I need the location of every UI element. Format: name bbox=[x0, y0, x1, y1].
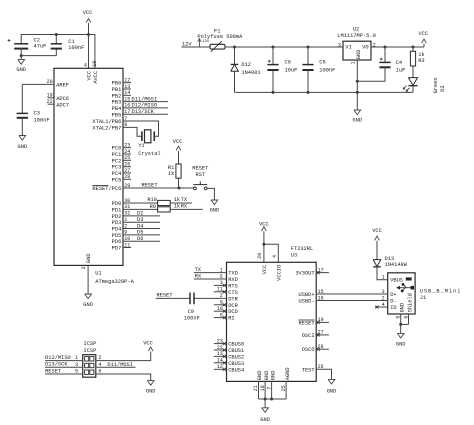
svg-text:1N4001: 1N4001 bbox=[241, 70, 260, 76]
svg-text:Green: Green bbox=[433, 77, 439, 93]
svg-text:5: 5 bbox=[75, 369, 78, 375]
svg-text:TX: TX bbox=[181, 197, 188, 203]
svg-text:ADC7: ADC7 bbox=[56, 102, 69, 108]
wire RX net bbox=[170, 208, 203, 210]
svg-text:PC5: PC5 bbox=[112, 177, 122, 183]
svg-text:2: 2 bbox=[98, 355, 101, 361]
svg-text:D12/MISO: D12/MISO bbox=[132, 103, 158, 109]
regulator U2 LM1117MP-5.0 bbox=[343, 41, 371, 60]
svg-text:USBD-: USBD- bbox=[299, 299, 315, 305]
svg-text:PB4: PB4 bbox=[112, 106, 122, 112]
svg-text:GND: GND bbox=[270, 371, 276, 381]
svg-text:USB_B_Mini: USB_B_Mini bbox=[420, 288, 462, 294]
svg-text:PD6: PD6 bbox=[112, 239, 122, 245]
svg-text:1: 1 bbox=[75, 355, 78, 361]
svg-text:VCC: VCC bbox=[262, 265, 268, 275]
ground under J1 bbox=[400, 324, 402, 333]
svg-text:CBUS3: CBUS3 bbox=[228, 361, 244, 367]
svg-text:ID: ID bbox=[390, 305, 396, 311]
svg-text:Shield: Shield bbox=[407, 293, 413, 312]
svg-text:CTS: CTS bbox=[228, 290, 238, 296]
ground under U2 bbox=[356, 107, 358, 110]
capacitor C2 47uF bbox=[14, 43, 28, 45]
svg-text:6: 6 bbox=[98, 369, 101, 375]
svg-text:GND: GND bbox=[396, 341, 406, 347]
svg-text:PB3: PB3 bbox=[112, 100, 122, 106]
svg-text:C5: C5 bbox=[319, 60, 325, 66]
svg-text:PB1: PB1 bbox=[112, 87, 122, 93]
svg-text:GND: GND bbox=[146, 389, 156, 395]
svg-text:PB0: PB0 bbox=[112, 81, 122, 87]
svg-text:D13/SCK: D13/SCK bbox=[132, 109, 155, 115]
svg-text:CBUS4: CBUS4 bbox=[228, 367, 244, 373]
svg-text:VCC: VCC bbox=[83, 10, 93, 16]
svg-text:GND: GND bbox=[352, 118, 362, 124]
wire ground return rail bbox=[235, 91, 414, 93]
svg-text:D13/SCK: D13/SCK bbox=[45, 362, 68, 368]
svg-text:PD0: PD0 bbox=[112, 201, 122, 207]
svg-text:TXD: TXD bbox=[228, 271, 238, 277]
svg-text:Y1: Y1 bbox=[138, 143, 144, 149]
node junction C6 bottom bbox=[272, 91, 275, 94]
svg-text:XTAL2/PB7: XTAL2/PB7 bbox=[92, 125, 121, 131]
node junction C6 top bbox=[272, 46, 275, 49]
node junction J1 gnd bbox=[399, 323, 402, 326]
svg-text:3: 3 bbox=[382, 289, 385, 295]
svg-text:VCC: VCC bbox=[87, 71, 93, 81]
svg-text:100nF: 100nF bbox=[34, 118, 50, 124]
svg-text:GND: GND bbox=[327, 388, 337, 394]
capacitor C5 100nF bbox=[307, 47, 309, 65]
svg-text:GND: GND bbox=[257, 371, 263, 381]
svg-text:U3: U3 bbox=[291, 253, 297, 259]
svg-text:RST: RST bbox=[195, 172, 205, 178]
svg-text:100nF: 100nF bbox=[184, 316, 200, 322]
svg-text:C3: C3 bbox=[34, 111, 40, 117]
svg-text:PD2: PD2 bbox=[112, 214, 122, 220]
resistor R9 1k (RX) bbox=[123, 208, 158, 210]
svg-text:GND: GND bbox=[210, 207, 220, 213]
svg-text:PD4: PD4 bbox=[112, 227, 122, 233]
node junction GND stem bbox=[264, 398, 267, 401]
node junction R1/reset bbox=[178, 187, 181, 190]
node junction C4 return bbox=[356, 80, 359, 83]
node junction C4 top bbox=[384, 46, 387, 49]
svg-text:PC3: PC3 bbox=[112, 165, 122, 171]
wire fuse to regulator bbox=[225, 46, 343, 48]
node junction pin7 gnd bbox=[270, 398, 273, 401]
ground at ICSP bbox=[150, 379, 152, 381]
wire TX net bbox=[170, 202, 192, 204]
svg-text:4: 4 bbox=[84, 63, 87, 69]
pin 4 ID bbox=[375, 306, 388, 308]
svg-text:18: 18 bbox=[92, 61, 98, 67]
wire J1 ground bus bbox=[401, 323, 409, 325]
node junction VCC/VCCIO bbox=[262, 243, 265, 246]
svg-text:FT232RL: FT232RL bbox=[291, 246, 313, 252]
svg-text:D3: D3 bbox=[137, 217, 143, 223]
resistor R10 1k (TX) bbox=[123, 202, 158, 204]
svg-text:RI: RI bbox=[228, 316, 234, 322]
svg-text:PC2: PC2 bbox=[112, 158, 122, 164]
svg-text:Crystal: Crystal bbox=[138, 151, 160, 157]
resistor R1 1k bbox=[176, 164, 181, 178]
svg-text:D12: D12 bbox=[241, 62, 251, 68]
svg-text:PB5: PB5 bbox=[112, 112, 122, 118]
svg-text:VCC: VCC bbox=[372, 228, 382, 234]
wire RESET net (pin29 to R1 and switch) bbox=[123, 187, 194, 189]
svg-text:ICSP: ICSP bbox=[84, 348, 97, 354]
svg-text:RESET: RESET bbox=[192, 165, 208, 171]
node junction C1 top bbox=[55, 33, 58, 36]
pin 1 ICSP (D12/MISO) bbox=[45, 360, 83, 362]
svg-text:GND: GND bbox=[260, 417, 270, 423]
wire C2 bottom to GND / C1 bottom bbox=[21, 49, 56, 56]
svg-text:LM1117MP-5.0: LM1117MP-5.0 bbox=[337, 33, 375, 39]
svg-text:4: 4 bbox=[382, 302, 385, 308]
capacitor C6 10uF bbox=[272, 47, 274, 65]
svg-text:ICSP: ICSP bbox=[84, 341, 97, 347]
svg-text:1: 1 bbox=[382, 274, 385, 280]
svg-text:1: 1 bbox=[350, 61, 356, 64]
svg-text:20: 20 bbox=[257, 253, 263, 259]
pin 19 ADC6 bbox=[48, 97, 54, 99]
diode D12 1N4001 bbox=[234, 47, 236, 64]
svg-text:PC1: PC1 bbox=[112, 152, 122, 158]
svg-text:ADC6: ADC6 bbox=[56, 96, 69, 102]
svg-text:Polyfuse 500mA: Polyfuse 500mA bbox=[197, 34, 243, 40]
svg-text:DCR: DCR bbox=[228, 303, 238, 309]
wire VCC rail to C2/C1 bbox=[21, 35, 95, 69]
svg-text:CBUS2: CBUS2 bbox=[228, 354, 244, 360]
svg-text:4: 4 bbox=[98, 362, 101, 368]
svg-text:1uF: 1uF bbox=[396, 67, 406, 73]
wire U1 GND pin bbox=[87, 265, 89, 291]
svg-text:PC0: PC0 bbox=[112, 146, 122, 152]
node junction D12 bbox=[233, 46, 236, 49]
svg-text:3: 3 bbox=[81, 266, 87, 269]
svg-text:D+: D+ bbox=[390, 292, 396, 298]
power flag 12V bbox=[198, 39, 200, 47]
wire TEST to ground bbox=[316, 369, 331, 376]
svg-text:RESET: RESET bbox=[45, 368, 61, 374]
svg-text:VI: VI bbox=[345, 44, 351, 50]
svg-text:D11/MOSI: D11/MOSI bbox=[107, 362, 133, 368]
svg-text:GND: GND bbox=[16, 67, 26, 73]
svg-text:R3: R3 bbox=[418, 58, 424, 64]
svg-text:AVCC: AVCC bbox=[93, 71, 99, 84]
svg-text:D12/MISO: D12/MISO bbox=[45, 355, 71, 361]
resistor R3 1k bbox=[412, 47, 414, 51]
svg-text:CBUS0: CBUS0 bbox=[228, 342, 244, 348]
wire D13 to VBUS bbox=[377, 267, 388, 280]
wire XTAL1 to crystal bbox=[123, 121, 159, 136]
LED D3 Green bbox=[412, 66, 414, 78]
connector J1 USB_B_Mini body bbox=[388, 273, 415, 314]
svg-text:47uF: 47uF bbox=[34, 43, 47, 49]
pin 6 ICSP (GND) bbox=[96, 374, 151, 379]
svg-text:PC4: PC4 bbox=[112, 171, 122, 177]
capacitor C3 100nF bbox=[21, 84, 23, 113]
svg-text:RXD: RXD bbox=[228, 277, 238, 283]
svg-text:D11/MOSI: D11/MOSI bbox=[132, 96, 158, 102]
node junction R3 top bbox=[412, 46, 415, 49]
svg-text:PD3: PD3 bbox=[112, 220, 122, 226]
svg-text:D-: D- bbox=[390, 299, 396, 305]
capacitor C4 1uF bbox=[384, 47, 386, 62]
svg-text:USBD+: USBD+ bbox=[299, 292, 315, 298]
svg-text:AGND: AGND bbox=[285, 367, 291, 380]
svg-text:PD1: PD1 bbox=[112, 207, 122, 213]
svg-text:20: 20 bbox=[47, 79, 53, 85]
op-amp U1 ATmega328P-A body bbox=[54, 68, 123, 265]
USB icon bbox=[406, 277, 412, 280]
crystal Y1 bbox=[141, 131, 143, 141]
svg-text:RESET: RESET bbox=[142, 182, 158, 188]
svg-text:GND: GND bbox=[83, 302, 93, 308]
svg-text:RESET: RESET bbox=[299, 320, 315, 326]
svg-text:CBUS1: CBUS1 bbox=[228, 348, 244, 354]
node junction C5 bottom bbox=[307, 91, 310, 94]
diode D13 1N4148W bbox=[373, 260, 381, 267]
svg-text:VCC: VCC bbox=[173, 139, 183, 145]
svg-text:4: 4 bbox=[272, 255, 278, 258]
pin 2 ICSP (VCC) bbox=[96, 354, 151, 361]
svg-text:PD5: PD5 bbox=[112, 233, 122, 239]
svg-text:VBUS: VBUS bbox=[390, 278, 403, 284]
svg-text:J1: J1 bbox=[420, 295, 426, 301]
wire VCCIO branch bbox=[264, 244, 278, 262]
svg-text:GND: GND bbox=[356, 50, 362, 60]
svg-text:VCC: VCC bbox=[143, 340, 153, 346]
svg-text:C9: C9 bbox=[188, 309, 194, 315]
svg-text:1k: 1k bbox=[174, 204, 180, 210]
svg-text:PD7: PD7 bbox=[112, 246, 122, 252]
svg-text:3: 3 bbox=[75, 362, 78, 368]
wire U2 GND pin bbox=[356, 60, 358, 107]
svg-text:TX: TX bbox=[195, 267, 202, 273]
svg-text:RX: RX bbox=[195, 274, 202, 280]
svg-text:RTS: RTS bbox=[228, 283, 238, 289]
wire XTAL2 to crystal bbox=[123, 127, 142, 136]
capacitor C1 100nF bbox=[51, 43, 62, 45]
svg-text:PB2: PB2 bbox=[112, 93, 122, 99]
svg-text:100nF: 100nF bbox=[68, 45, 84, 51]
svg-text:RX: RX bbox=[181, 204, 188, 210]
svg-text:U2: U2 bbox=[353, 26, 359, 32]
pin 22 ADC7 bbox=[48, 103, 54, 105]
node junction ground rail U2 bbox=[356, 91, 359, 94]
ground at TEST pin bbox=[331, 376, 333, 379]
node junction C2 bottom bbox=[20, 54, 23, 57]
ground under C3 bbox=[21, 118, 23, 136]
svg-text:VO: VO bbox=[362, 44, 368, 50]
svg-text:3V3OUT: 3V3OUT bbox=[295, 271, 314, 277]
svg-text:GND: GND bbox=[400, 303, 406, 313]
svg-text:10uF: 10uF bbox=[285, 67, 298, 73]
svg-text:3: 3 bbox=[338, 42, 341, 48]
svg-text:1k: 1k bbox=[174, 197, 180, 203]
svg-text:GND: GND bbox=[264, 371, 270, 381]
ground under switch bbox=[213, 197, 215, 200]
wire U2 output rail bbox=[371, 46, 424, 48]
wire switch to ground bbox=[207, 188, 214, 197]
capacitor C9 100nF bbox=[189, 293, 191, 305]
svg-text:1N4148W: 1N4148W bbox=[385, 262, 408, 268]
svg-text:R9: R9 bbox=[150, 204, 156, 210]
pin 20 AREF bbox=[22, 83, 54, 85]
node junction VCC stem bbox=[87, 33, 90, 36]
svg-text:2: 2 bbox=[382, 295, 385, 301]
svg-text:VCC: VCC bbox=[418, 31, 428, 37]
svg-text:U1: U1 bbox=[95, 271, 101, 277]
svg-text:XTAL1/PB6: XTAL1/PB6 bbox=[92, 119, 121, 125]
node junction C5 top bbox=[307, 46, 310, 49]
pin 3 ICSP (D13/SCK) bbox=[45, 366, 83, 368]
svg-text:DTR: DTR bbox=[228, 296, 238, 302]
svg-text:D6: D6 bbox=[137, 236, 143, 242]
svg-text:12V: 12V bbox=[202, 40, 210, 44]
svg-text:DCD: DCD bbox=[228, 309, 238, 315]
svg-text:1k: 1k bbox=[168, 171, 174, 177]
svg-text:AREF: AREF bbox=[56, 83, 69, 89]
svg-text:VCCIO: VCCIO bbox=[276, 265, 282, 281]
svg-text:C6: C6 bbox=[285, 60, 291, 66]
svg-text:GND: GND bbox=[17, 144, 27, 150]
ground under C2 bbox=[20, 56, 22, 60]
svg-text:GND: GND bbox=[86, 253, 92, 263]
svg-text:D5: D5 bbox=[137, 230, 143, 236]
wire U3 ground bus bbox=[259, 398, 287, 400]
svg-text:R10: R10 bbox=[147, 197, 157, 203]
ground under U3 bbox=[264, 399, 266, 408]
pin 5 ICSP (RESET) bbox=[45, 373, 83, 375]
svg-text:C4: C4 bbox=[396, 60, 402, 66]
svg-text:D2: D2 bbox=[137, 211, 143, 217]
svg-text:OSCO: OSCO bbox=[302, 347, 315, 353]
pin 4 ICSP (D11/MOSI) bbox=[96, 366, 136, 368]
ground under U1 bbox=[87, 291, 89, 294]
svg-text:D4: D4 bbox=[137, 223, 143, 229]
wire C1 top stub bbox=[55, 35, 57, 44]
op-amp U3 FT232RL body bbox=[227, 262, 317, 381]
svg-text:TEST: TEST bbox=[302, 367, 315, 373]
svg-text:OSCI: OSCI bbox=[302, 333, 315, 339]
svg-text:19: 19 bbox=[47, 93, 53, 99]
svg-text:100nF: 100nF bbox=[319, 67, 335, 73]
svg-text:ATmega328P-A: ATmega328P-A bbox=[95, 279, 134, 285]
svg-text:RESET/PC6: RESET/PC6 bbox=[92, 186, 121, 192]
svg-text:22: 22 bbox=[47, 99, 53, 105]
wire AVCC drop bbox=[88, 35, 90, 69]
svg-text:RESET: RESET bbox=[157, 293, 173, 299]
svg-text:D3: D3 bbox=[440, 85, 446, 91]
